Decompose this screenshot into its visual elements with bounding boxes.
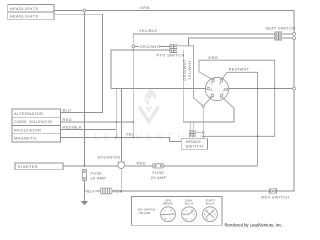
fuse F2 horizontal bbox=[153, 164, 164, 168]
junction dots bbox=[115, 121, 117, 123]
junction branch/trunk bbox=[132, 49, 134, 51]
svg-text:Rendered by LeadVenture, Inc.: Rendered by LeadVenture, Inc. bbox=[225, 222, 283, 227]
wire PTO out to seat switch lower pin bbox=[177, 46, 203, 106]
wire YEL from magneto to brake switch bbox=[61, 138, 182, 142]
carb solenoid box bbox=[12, 117, 61, 125]
key position START circle bbox=[203, 198, 218, 221]
pin connector circle bottom bbox=[293, 37, 296, 40]
svg-text:BLU: BLU bbox=[63, 108, 72, 113]
svg-text:B+L+A: B+L+A bbox=[185, 201, 194, 205]
ignition terminal A bbox=[207, 88, 210, 90]
ignition terminal S bbox=[211, 79, 214, 83]
ignition terminal letters bbox=[210, 81, 225, 99]
svg-text:M: M bbox=[206, 218, 208, 220]
wire branch to ignition A rail and PTO lower pin bbox=[111, 50, 170, 89]
svg-text:ORG: ORG bbox=[208, 55, 218, 60]
regulator box bbox=[12, 126, 61, 134]
svg-text:SEAT SWITCH: SEAT SWITCH bbox=[265, 26, 295, 31]
svg-text:SOLENOID: SOLENOID bbox=[98, 155, 121, 160]
wire RED from carb solenoid bbox=[61, 121, 134, 123]
svg-text:725-1296: 725-1296 bbox=[138, 211, 150, 215]
svg-text:M: M bbox=[185, 218, 187, 220]
svg-text:G: G bbox=[173, 214, 175, 216]
svg-text:REGULATOR: REGULATOR bbox=[14, 127, 41, 132]
svg-text:BRAKE: BRAKE bbox=[163, 201, 173, 205]
svg-text:CARB. SOLENOID: CARB. SOLENOID bbox=[14, 119, 52, 124]
svg-text:ORG/WHT: ORG/WHT bbox=[140, 44, 162, 49]
svg-text:B: B bbox=[219, 81, 221, 85]
wire ORG/WHT node to PTO switch bbox=[135, 45, 170, 47]
svg-text:YEL/BLK: YEL/BLK bbox=[139, 28, 157, 33]
svg-text:PTO SWITCH: PTO SWITCH bbox=[157, 52, 185, 57]
junction circle M bbox=[202, 105, 204, 107]
wire right trunk down to rev switch bbox=[277, 40, 295, 191]
wire ORG/WHT drop to brake rail bbox=[183, 50, 234, 122]
key position OFF circle bbox=[161, 198, 176, 221]
wire brake connector stub bbox=[195, 131, 202, 133]
wire seat switch right pins bbox=[282, 33, 293, 35]
wire solenoid right / RED to fuse 2 bbox=[125, 165, 153, 167]
svg-text:SWITCH: SWITCH bbox=[186, 144, 204, 149]
ignition switch body bbox=[205, 77, 228, 100]
wire solenoid S feed vertical bbox=[121, 89, 123, 162]
svg-text:ALTERNATOR: ALTERNATOR bbox=[14, 111, 43, 116]
svg-text:A: A bbox=[211, 88, 213, 92]
headlight box 1 bbox=[8, 5, 54, 12]
wire battery feed down from GRN node bbox=[83, 12, 85, 166]
wire RED to ignition B rail bbox=[164, 165, 258, 167]
magneto box bbox=[12, 134, 61, 142]
svg-text:20 AMP: 20 AMP bbox=[151, 175, 167, 180]
key position RUN circle bbox=[182, 198, 197, 221]
svg-text:RED/BLK: RED/BLK bbox=[63, 125, 82, 130]
svg-text:G: G bbox=[223, 88, 225, 92]
wire ORG/WHT vertical trunk bbox=[132, 34, 134, 138]
ignition terminal B bbox=[220, 78, 223, 82]
svg-text:HEADLIGHTS: HEADLIGHTS bbox=[10, 13, 39, 18]
wire below fuse bbox=[83, 181, 85, 201]
brake switch connector bbox=[189, 130, 195, 137]
label ORG/WHT bbox=[139, 45, 160, 49]
junction circle brake bbox=[202, 131, 204, 133]
wire solenoid bottom bbox=[120, 169, 122, 192]
legend box key switch terminals bbox=[131, 197, 222, 226]
node on GRN wire bbox=[83, 9, 86, 12]
wire L terminal diagonal bbox=[222, 97, 234, 108]
svg-text:RED: RED bbox=[137, 161, 146, 166]
starter box bbox=[15, 163, 63, 170]
svg-text:HEADLIGHTS: HEADLIGHTS bbox=[10, 6, 39, 11]
wire seat lower pin riser bbox=[188, 38, 275, 46]
svg-text:YEL/WHT: YEL/WHT bbox=[187, 60, 192, 80]
svg-text:GRN: GRN bbox=[140, 5, 150, 10]
ignition terminal G bbox=[225, 88, 228, 90]
wire M vertical bbox=[202, 107, 204, 138]
svg-text:G: G bbox=[194, 214, 196, 216]
seat switch connector bbox=[275, 32, 282, 40]
wire starter to solenoid bbox=[63, 165, 118, 167]
fuse F1 vertical bbox=[82, 169, 86, 180]
ignition coil bbox=[100, 188, 112, 194]
wire ignition A horizontal bbox=[111, 88, 206, 90]
svg-text:RED: RED bbox=[63, 117, 72, 122]
svg-text:RED/WHT: RED/WHT bbox=[229, 67, 250, 72]
node on ORG/WHT trunk bbox=[132, 45, 135, 48]
PTO switch connector bbox=[170, 44, 177, 52]
label RED bbox=[113, 189, 122, 193]
ignition terminal M bbox=[211, 93, 214, 97]
svg-text:STARTER: STARTER bbox=[18, 164, 38, 169]
wire YEL/BLK to seat switch bbox=[133, 33, 275, 35]
alternator box bbox=[12, 109, 61, 117]
wire RED/BLK from regulator bbox=[61, 129, 117, 131]
wire brake pins up bbox=[190, 122, 192, 130]
wire coil to rev switch rail bbox=[112, 190, 270, 192]
svg-text:MAGNETO: MAGNETO bbox=[14, 136, 36, 141]
solenoid bbox=[117, 161, 125, 168]
label BLK bbox=[86, 189, 95, 193]
svg-text:20 AMP: 20 AMP bbox=[91, 175, 107, 180]
rev switch connector bbox=[270, 189, 277, 194]
svg-text:BLK: BLK bbox=[87, 189, 96, 194]
ground symbol bbox=[81, 201, 89, 205]
pin connector circle mid right bbox=[293, 87, 296, 90]
brake switch label box bbox=[181, 139, 207, 150]
wire ignition G to right connector pin bbox=[229, 88, 293, 90]
svg-text:G: G bbox=[215, 214, 217, 216]
wire M terminal diagonal bbox=[204, 97, 212, 105]
pin connector circle top bbox=[293, 32, 296, 35]
wire headlight 2 to BLU vertical bbox=[54, 14, 103, 112]
wire ORG from S terminal down right side to brake node bbox=[199, 60, 275, 136]
svg-text:REV SWITCH: REV SWITCH bbox=[261, 195, 289, 200]
ignition terminal L bbox=[220, 94, 223, 98]
wire GRN horizontal from headlight 1 to right trunk bbox=[54, 10, 294, 32]
wire ground rail BLK/RED with coil bbox=[84, 190, 100, 192]
svg-text:M: M bbox=[164, 218, 166, 220]
headlight box 2 bbox=[8, 12, 54, 20]
svg-text:B+L+S: B+L+S bbox=[206, 201, 215, 205]
watermark LeadVenture flame logo bbox=[139, 88, 159, 122]
svg-text:S: S bbox=[211, 82, 213, 86]
svg-text:YEL: YEL bbox=[126, 131, 135, 136]
wire RED/WHT from B terminal bbox=[223, 72, 258, 166]
wire ignition A feed vertical bbox=[115, 89, 117, 138]
